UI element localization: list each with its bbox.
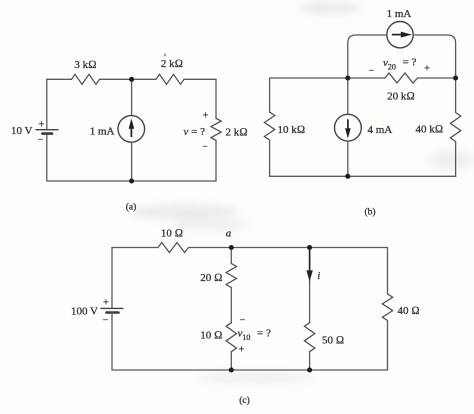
battery 100 V plate short bbox=[107, 311, 119, 314]
wire: (b) middle vertical upper bbox=[347, 78, 349, 114]
wire: (c) top wire left bbox=[112, 247, 158, 249]
background smudge right mid bbox=[427, 150, 474, 170]
wire: (a) center branch lower bbox=[131, 142, 133, 181]
svg-text:i: i bbox=[317, 270, 320, 282]
speck above 2 kOhm label (a) bbox=[164, 54, 166, 57]
wire: (b) right vertical lower bbox=[455, 142, 457, 177]
wire: (a) left wire lower bbox=[46, 134, 48, 181]
svg-text:20 kΩ: 20 kΩ bbox=[387, 91, 415, 103]
svg-text:v10= ?: v10= ? bbox=[238, 328, 271, 343]
wire: (c) bottom wire bbox=[112, 369, 388, 371]
wire: (c) branch1 lower bbox=[230, 352, 232, 370]
resistor 2 kOhm right (a) bbox=[211, 118, 221, 140]
wire: (c) branch1 middle bbox=[230, 288, 232, 323]
background smudge bottom bbox=[195, 372, 315, 384]
svg-text:10 Ω: 10 Ω bbox=[161, 228, 183, 240]
svg-text:1 mA: 1 mA bbox=[387, 8, 412, 20]
wire: (c) right wire lower bbox=[387, 321, 389, 371]
wire: (b) middle horizontal left bbox=[270, 77, 385, 79]
wire: (a) center branch upper bbox=[131, 79, 133, 115]
wire: (b) bottom wire bbox=[270, 175, 456, 177]
wire: (a) right wire lower bbox=[215, 140, 217, 181]
wire: (a) left wire upper bbox=[46, 79, 48, 129]
background smudge center 2 bbox=[170, 219, 250, 231]
svg-text:10 kΩ: 10 kΩ bbox=[278, 124, 306, 136]
svg-text:2 kΩ: 2 kΩ bbox=[226, 126, 248, 138]
node junction dot (b) bottom bbox=[345, 174, 350, 179]
wire: (b) middle horizontal right bbox=[418, 77, 456, 79]
current source 1 mA (a) circle bbox=[118, 116, 145, 143]
background smudge top right bbox=[300, 2, 360, 14]
node junction dot (a) bottom bbox=[129, 178, 134, 183]
wire: (a) top-middle segment bbox=[100, 78, 157, 80]
svg-text:v20= ?: v20= ? bbox=[383, 57, 416, 72]
background smudge center bbox=[130, 204, 240, 220]
wire: (c) top wire right bbox=[189, 247, 388, 249]
resistor 40 kOhm (b) bbox=[450, 113, 460, 142]
wire: (c) left wire upper bbox=[111, 248, 113, 309]
svg-text:100 V: 100 V bbox=[71, 306, 98, 318]
wire: (b) top loop left bbox=[348, 35, 387, 78]
wire: (b) right vertical upper bbox=[455, 78, 457, 113]
svg-text:−: − bbox=[103, 315, 109, 326]
wire: (c) branch2 lower bbox=[309, 352, 311, 370]
svg-text:40 kΩ: 40 kΩ bbox=[416, 124, 444, 136]
svg-text:10 Ω: 10 Ω bbox=[200, 330, 222, 342]
wire: (a) top-left segment bbox=[47, 78, 72, 80]
svg-text:−: − bbox=[38, 135, 44, 146]
resistor 40 Ohm (c) bbox=[382, 294, 392, 321]
resistor 10 kOhm (b) bbox=[264, 112, 274, 140]
svg-text:(b): (b) bbox=[364, 207, 375, 218]
svg-text:20 Ω: 20 Ω bbox=[200, 272, 222, 284]
svg-text:−: − bbox=[369, 66, 375, 77]
node junction dot (a) top bbox=[129, 77, 134, 82]
wire: (b) left vertical lower bbox=[269, 140, 271, 176]
svg-text:−: − bbox=[240, 315, 246, 326]
svg-text:−: − bbox=[202, 142, 208, 153]
wire: (c) left wire lower bbox=[111, 313, 113, 370]
node junction dot (c) bottom branch1 bbox=[229, 367, 234, 372]
resistor 20 Ohm (c) bbox=[226, 264, 236, 288]
battery 10 V plate short bbox=[43, 132, 53, 135]
node junction dot (c) top branch2 bbox=[307, 245, 312, 250]
wire: (b) top loop right bbox=[413, 35, 455, 78]
svg-text:a: a bbox=[226, 228, 232, 240]
resistor 3 kOhm (a) bbox=[72, 74, 100, 84]
svg-text:40 Ω: 40 Ω bbox=[398, 305, 420, 317]
resistor 10 Ohm lower (c) bbox=[226, 323, 236, 352]
svg-text:50 Ω: 50 Ω bbox=[322, 335, 344, 347]
wire: (a) right wire upper bbox=[215, 79, 217, 118]
svg-text:4 mA: 4 mA bbox=[368, 124, 393, 136]
current source 1 mA (b) arrow bbox=[392, 32, 411, 37]
node junction dot (b) middle-right bbox=[453, 75, 458, 80]
wire: (c) branch1 upper bbox=[230, 248, 232, 264]
wire: (c) branch2 upper bbox=[309, 248, 311, 323]
wire: (b) left vertical upper bbox=[269, 78, 271, 113]
svg-text:(c): (c) bbox=[239, 395, 250, 406]
node a dot (c) bbox=[229, 245, 234, 250]
svg-text:(a): (a) bbox=[126, 202, 137, 213]
current source 4 mA (b) circle bbox=[335, 114, 362, 141]
current source 4 mA (b) arrow bbox=[346, 119, 351, 137]
node junction dot (b) middle-left bbox=[345, 75, 350, 80]
svg-text:+: + bbox=[103, 298, 109, 309]
wire: (b) middle vertical lower bbox=[347, 141, 349, 176]
resistor 2 kOhm top (a) bbox=[156, 74, 184, 84]
svg-text:v = ?: v = ? bbox=[184, 126, 206, 138]
current source 1 mA (b) circle bbox=[387, 22, 413, 48]
resistor 50 Ohm (c) bbox=[304, 323, 314, 352]
wire: (a) top-right segment bbox=[184, 78, 216, 80]
wire: (c) right wire upper bbox=[387, 248, 389, 295]
svg-text:+: + bbox=[203, 111, 209, 122]
svg-text:+: + bbox=[424, 64, 430, 75]
node junction dot (c) bottom branch2 bbox=[307, 367, 312, 372]
svg-text:3 kΩ: 3 kΩ bbox=[74, 59, 96, 71]
resistor 20 kOhm (b) bbox=[385, 73, 418, 83]
svg-text:1 mA: 1 mA bbox=[90, 126, 115, 138]
svg-text:10 V: 10 V bbox=[11, 125, 33, 137]
battery 100 V plate long bbox=[101, 307, 123, 309]
current source 1 mA (a) arrow bbox=[129, 120, 134, 137]
wire: (a) bottom wire bbox=[47, 180, 216, 182]
svg-text:+: + bbox=[239, 345, 245, 356]
battery 10 V plate long bbox=[36, 129, 58, 131]
svg-text:+: + bbox=[39, 120, 45, 131]
svg-text:2 kΩ: 2 kΩ bbox=[161, 58, 183, 70]
resistor 10 Ohm top (c) bbox=[158, 243, 189, 253]
current arrow i (c) bbox=[307, 250, 312, 280]
